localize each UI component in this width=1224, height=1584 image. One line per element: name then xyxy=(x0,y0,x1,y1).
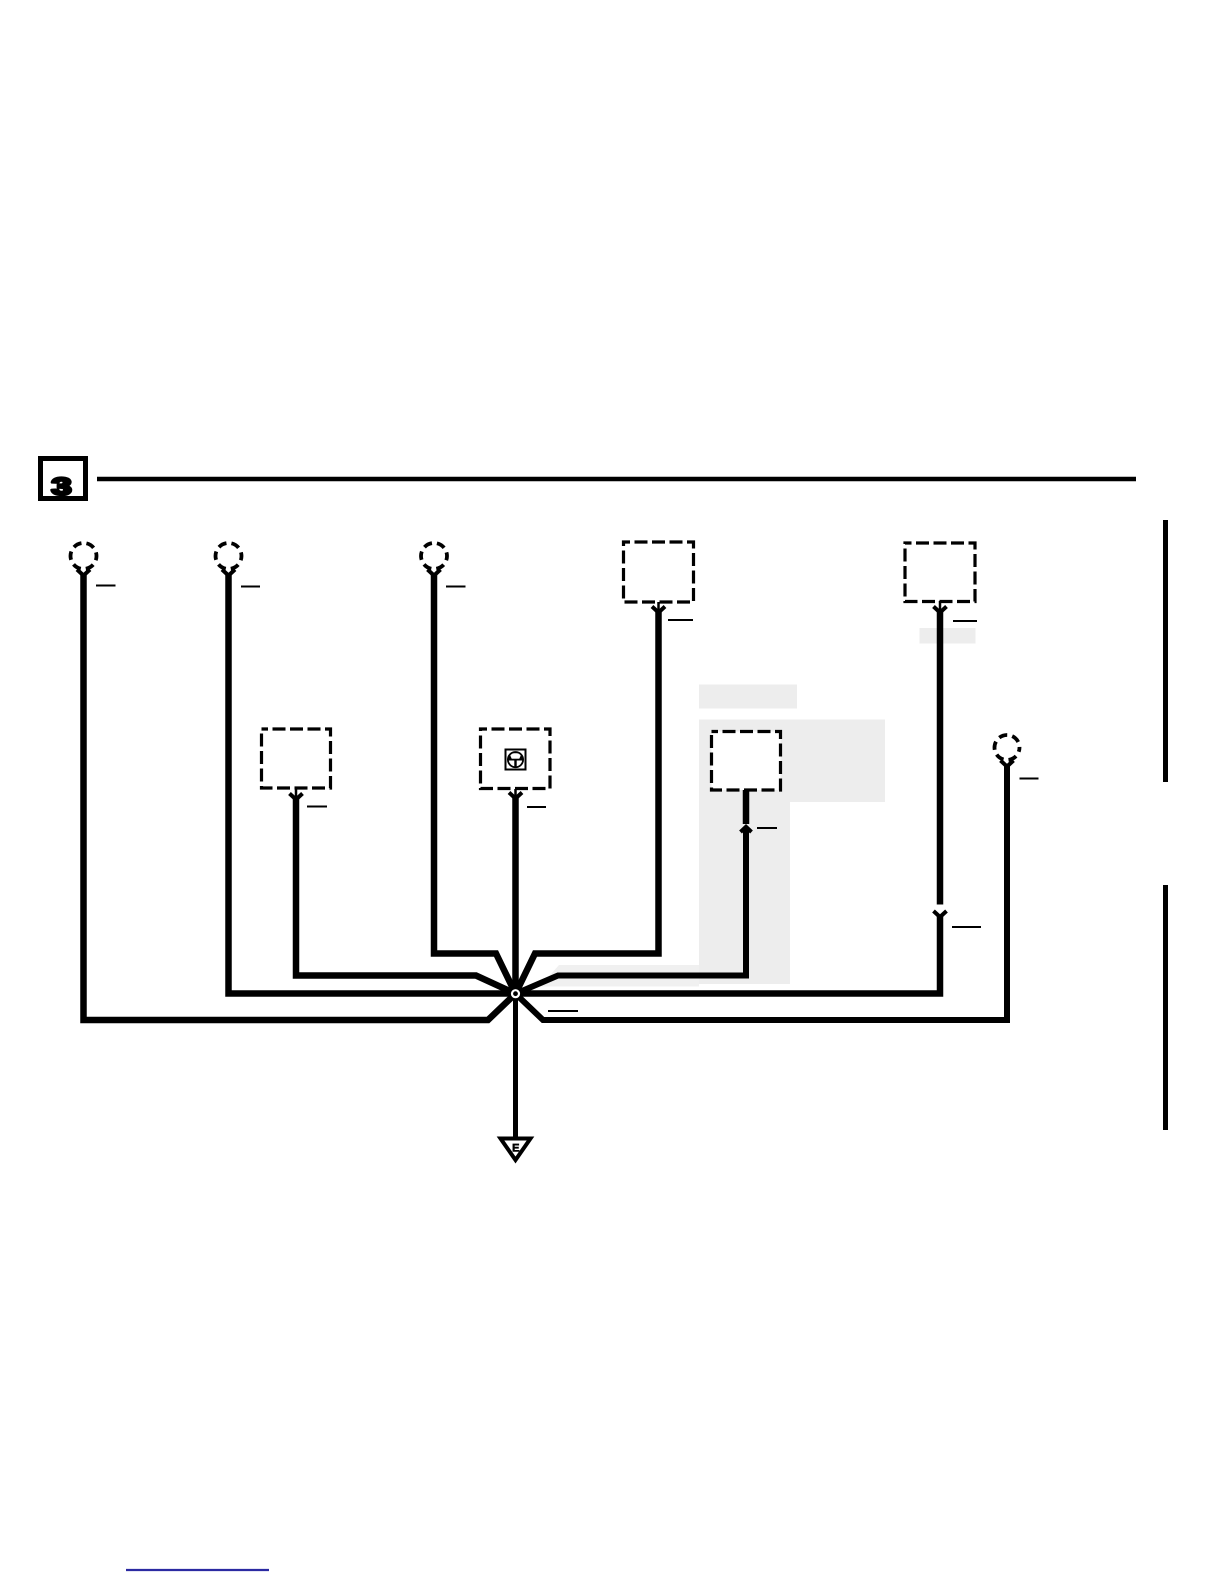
wire from component U5 to ground node xyxy=(516,828,747,994)
connector P1 xyxy=(71,543,97,569)
ground node junction xyxy=(511,989,520,998)
wire from ground node to ground symbol E xyxy=(513,994,518,1139)
component box U2 xyxy=(905,543,975,602)
arrowhead at U2 xyxy=(934,607,947,613)
arrowhead at U4 xyxy=(509,793,522,799)
highlight shading block B xyxy=(699,720,885,803)
ground symbol E xyxy=(501,1139,531,1161)
side section bar lower xyxy=(1163,885,1168,1130)
sheet number box 3 xyxy=(41,459,86,501)
top rule xyxy=(97,477,1136,482)
label line at U1 xyxy=(668,619,693,621)
component box U4 xyxy=(481,729,551,789)
label line at U3 xyxy=(307,806,327,808)
pin stub at U4 xyxy=(514,789,517,798)
pin stub at U1 xyxy=(657,602,660,612)
footer link underline xyxy=(126,1569,269,1571)
arrowhead at U1 xyxy=(652,607,665,613)
pin stub at U3 xyxy=(295,788,298,799)
label line at P2 xyxy=(241,586,260,588)
highlight shading block D xyxy=(920,628,976,644)
wire from connector P3 to ground node xyxy=(434,574,516,994)
component box U3 xyxy=(262,729,331,788)
wire from connector P2 to ground node xyxy=(229,574,516,994)
label line at ground node xyxy=(548,1010,578,1012)
pin stub at U2 xyxy=(939,601,942,612)
wire from component U1 to ground node xyxy=(516,611,659,994)
highlight shading block A xyxy=(699,685,797,709)
wire from component U2 to ground node (upper segment) xyxy=(937,611,944,905)
wire stub from component U5 xyxy=(743,789,750,824)
arrowhead pointing up on U5 branch xyxy=(741,827,752,832)
svg-text:E: E xyxy=(512,1143,519,1155)
component box U1 xyxy=(624,542,694,602)
wire from connector P4 to ground node xyxy=(516,765,1008,1020)
arrowhead at P2 xyxy=(222,570,235,576)
label line at U4 xyxy=(527,806,546,808)
label line at P3 xyxy=(446,586,466,588)
wire from component U3 to ground node xyxy=(296,799,516,994)
label line at U5 xyxy=(757,827,777,829)
label line mid-wire on U2 branch xyxy=(952,926,981,928)
wire from component U4 to ground node xyxy=(512,798,519,994)
wire from connector P1 to ground node xyxy=(84,574,516,1020)
wire from component U2 to ground node (lower segment) xyxy=(516,916,941,994)
arrowhead at U3 xyxy=(290,794,303,800)
motor symbol inside U4 xyxy=(506,750,526,770)
label line at U2 xyxy=(953,620,977,622)
label line at P4 xyxy=(1020,778,1039,780)
arrowhead at P4 xyxy=(1001,761,1014,767)
svg-text:3: 3 xyxy=(52,474,72,501)
arrowhead mid-wire on U2 branch xyxy=(934,911,947,917)
highlight shading block C xyxy=(699,802,790,984)
highlight shading wedge along node branch xyxy=(540,965,699,987)
connector P4 xyxy=(995,735,1020,760)
arrowhead at P1 xyxy=(77,570,90,576)
connector P3 xyxy=(421,543,447,569)
label line at P1 xyxy=(96,585,116,587)
connector P2 xyxy=(216,543,242,569)
side section bar upper xyxy=(1163,520,1168,782)
component box U5 xyxy=(712,732,781,791)
arrowhead at P3 xyxy=(428,570,441,576)
